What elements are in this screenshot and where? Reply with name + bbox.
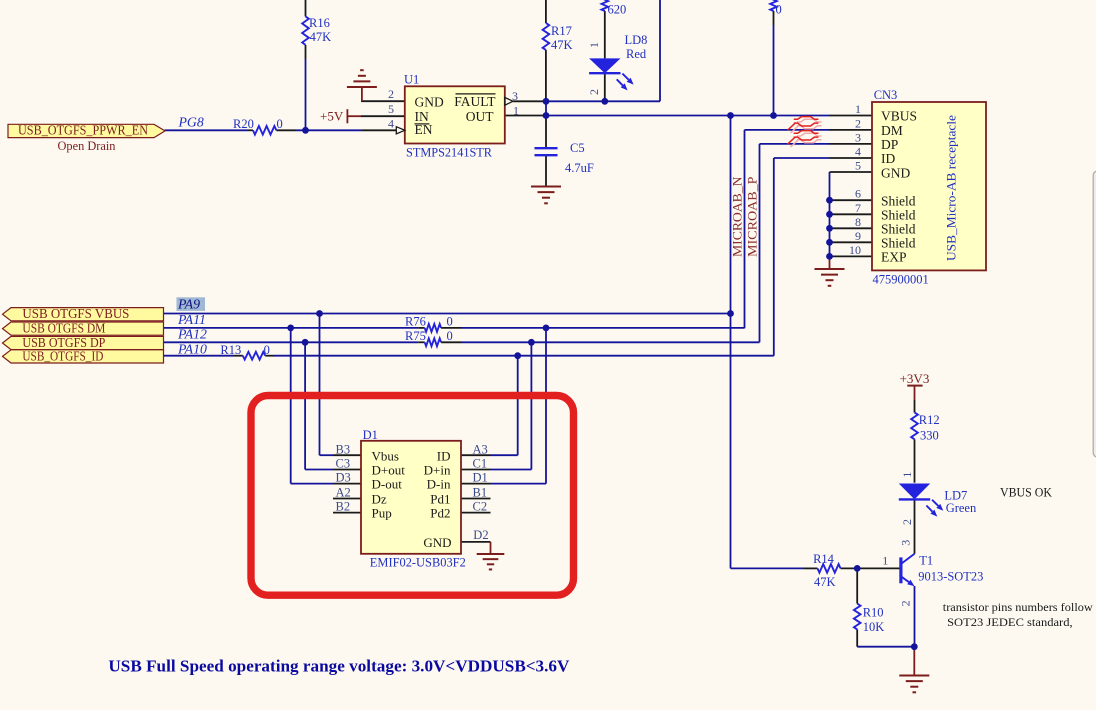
svg-text:0: 0: [264, 343, 270, 357]
svg-text:PA11: PA11: [177, 312, 206, 327]
svg-text:0: 0: [447, 329, 453, 343]
svg-text:Pd2: Pd2: [430, 506, 450, 521]
svg-text:R75: R75: [405, 329, 426, 343]
svg-text:STMPS2141STR: STMPS2141STR: [406, 146, 493, 160]
svg-text:10K: 10K: [863, 620, 885, 634]
svg-text:USB OTGFS DM: USB OTGFS DM: [22, 321, 105, 336]
svg-text:B2: B2: [336, 500, 351, 514]
svg-text:1: 1: [513, 104, 519, 118]
svg-text:C2: C2: [473, 500, 488, 514]
svg-text:U1: U1: [404, 73, 419, 87]
svg-text:CN3: CN3: [874, 88, 898, 102]
svg-text:0: 0: [277, 117, 283, 131]
svg-text:7: 7: [855, 201, 861, 215]
svg-text:C3: C3: [336, 457, 351, 471]
svg-text:47K: 47K: [814, 575, 836, 589]
svg-text:8: 8: [855, 215, 861, 229]
svg-text:Vbus: Vbus: [372, 448, 399, 463]
svg-text:USB_OTGFS_PPWR_EN: USB_OTGFS_PPWR_EN: [18, 123, 148, 138]
svg-text:3: 3: [899, 540, 913, 546]
svg-text:2: 2: [587, 89, 601, 95]
svg-text:B1: B1: [473, 486, 488, 500]
svg-text:SOT23 JEDEC standard,: SOT23 JEDEC standard,: [947, 615, 1073, 629]
svg-text:0: 0: [776, 3, 782, 17]
svg-text:4: 4: [855, 145, 861, 159]
svg-text:9: 9: [855, 229, 861, 243]
svg-text:GND: GND: [423, 535, 451, 550]
svg-text:1: 1: [900, 472, 914, 478]
svg-text:Open Drain: Open Drain: [58, 139, 117, 153]
svg-text:EMIF02-USB03F2: EMIF02-USB03F2: [370, 556, 466, 570]
svg-text:+5V: +5V: [320, 108, 344, 123]
svg-text:10: 10: [849, 243, 861, 257]
svg-text:0: 0: [447, 315, 453, 329]
svg-text:Shield: Shield: [881, 222, 916, 237]
svg-text:R13: R13: [220, 343, 241, 357]
svg-text:R10: R10: [863, 606, 884, 620]
svg-text:FAULT: FAULT: [454, 94, 496, 109]
svg-text:330: 330: [920, 428, 939, 442]
svg-text:A2: A2: [336, 486, 351, 500]
svg-text:PG8: PG8: [178, 115, 204, 130]
svg-text:Pup: Pup: [372, 506, 392, 521]
svg-text:620: 620: [608, 3, 627, 17]
svg-text:USB Full Speed operating range: USB Full Speed operating range voltage: …: [108, 657, 569, 676]
svg-text:475900001: 475900001: [873, 273, 929, 287]
svg-text:Dz: Dz: [372, 492, 387, 507]
svg-text:USB OTGFS VBUS: USB OTGFS VBUS: [22, 306, 129, 321]
svg-text:Shield: Shield: [881, 236, 916, 251]
svg-text:Shield: Shield: [881, 194, 916, 209]
svg-text:VBUS: VBUS: [881, 109, 917, 124]
svg-text:5: 5: [855, 158, 861, 172]
svg-text:4.7uF: 4.7uF: [565, 161, 594, 175]
svg-text:3: 3: [855, 130, 861, 144]
svg-text:2: 2: [388, 87, 394, 101]
svg-text:R12: R12: [919, 413, 940, 427]
svg-text:GND: GND: [881, 166, 910, 181]
svg-text:A3: A3: [473, 442, 488, 456]
svg-text:47K: 47K: [310, 30, 332, 44]
svg-text:R20: R20: [233, 117, 254, 131]
svg-text:5: 5: [388, 102, 394, 116]
svg-text:4: 4: [388, 116, 394, 130]
svg-text:3: 3: [512, 89, 518, 103]
svg-text:D-in: D-in: [427, 477, 451, 492]
svg-text:1: 1: [882, 554, 888, 568]
svg-text:6: 6: [855, 187, 861, 201]
svg-text:D+out: D+out: [372, 463, 406, 478]
svg-text:1: 1: [587, 42, 601, 48]
svg-text:R16: R16: [309, 16, 330, 30]
svg-text:Red: Red: [626, 47, 647, 61]
svg-text:T1: T1: [919, 554, 933, 568]
svg-text:Pd1: Pd1: [430, 492, 450, 507]
svg-text:DM: DM: [881, 123, 903, 138]
svg-text:ID: ID: [881, 151, 895, 166]
svg-text:9013-SOT23: 9013-SOT23: [918, 569, 983, 583]
svg-text:MICROAB_P: MICROAB_P: [746, 176, 760, 257]
svg-text:47K: 47K: [551, 38, 573, 52]
svg-text:R76: R76: [405, 315, 426, 329]
svg-text:VBUS OK: VBUS OK: [1000, 486, 1052, 500]
svg-text:MICROAB_N: MICROAB_N: [731, 176, 745, 257]
svg-text:GND: GND: [415, 95, 444, 110]
svg-text:Shield: Shield: [881, 208, 916, 223]
svg-text:ID: ID: [437, 448, 451, 463]
svg-text:PA12: PA12: [177, 327, 207, 342]
svg-text:PA10: PA10: [177, 342, 207, 357]
svg-text:LD8: LD8: [625, 33, 648, 47]
svg-text:2: 2: [899, 600, 913, 606]
svg-text:D1: D1: [473, 471, 488, 485]
svg-text:D2: D2: [473, 528, 488, 542]
svg-text:USB_OTGFS_ID: USB_OTGFS_ID: [22, 348, 103, 363]
svg-text:D1: D1: [363, 428, 378, 442]
svg-text:+3V3: +3V3: [900, 371, 930, 386]
svg-text:C1: C1: [473, 457, 488, 471]
svg-text:D3: D3: [336, 471, 351, 485]
svg-text:2: 2: [900, 519, 914, 525]
svg-text:DP: DP: [881, 137, 898, 152]
svg-text:transistor pins numbers follow: transistor pins numbers follow: [943, 600, 1093, 614]
svg-text:D-out: D-out: [372, 477, 403, 492]
svg-text:Green: Green: [946, 501, 977, 515]
svg-text:EXP: EXP: [881, 250, 907, 265]
svg-text:2: 2: [855, 116, 861, 130]
svg-text:1: 1: [855, 102, 861, 116]
svg-text:B3: B3: [336, 442, 351, 456]
svg-text:OUT: OUT: [466, 109, 494, 124]
svg-text:PA9: PA9: [177, 297, 200, 312]
svg-text:C5: C5: [570, 141, 585, 155]
svg-text:R14: R14: [813, 552, 835, 566]
svg-text:USB_Micro-AB receptacle: USB_Micro-AB receptacle: [944, 115, 959, 261]
svg-text:D+in: D+in: [424, 463, 451, 478]
svg-text:R17: R17: [551, 24, 572, 38]
